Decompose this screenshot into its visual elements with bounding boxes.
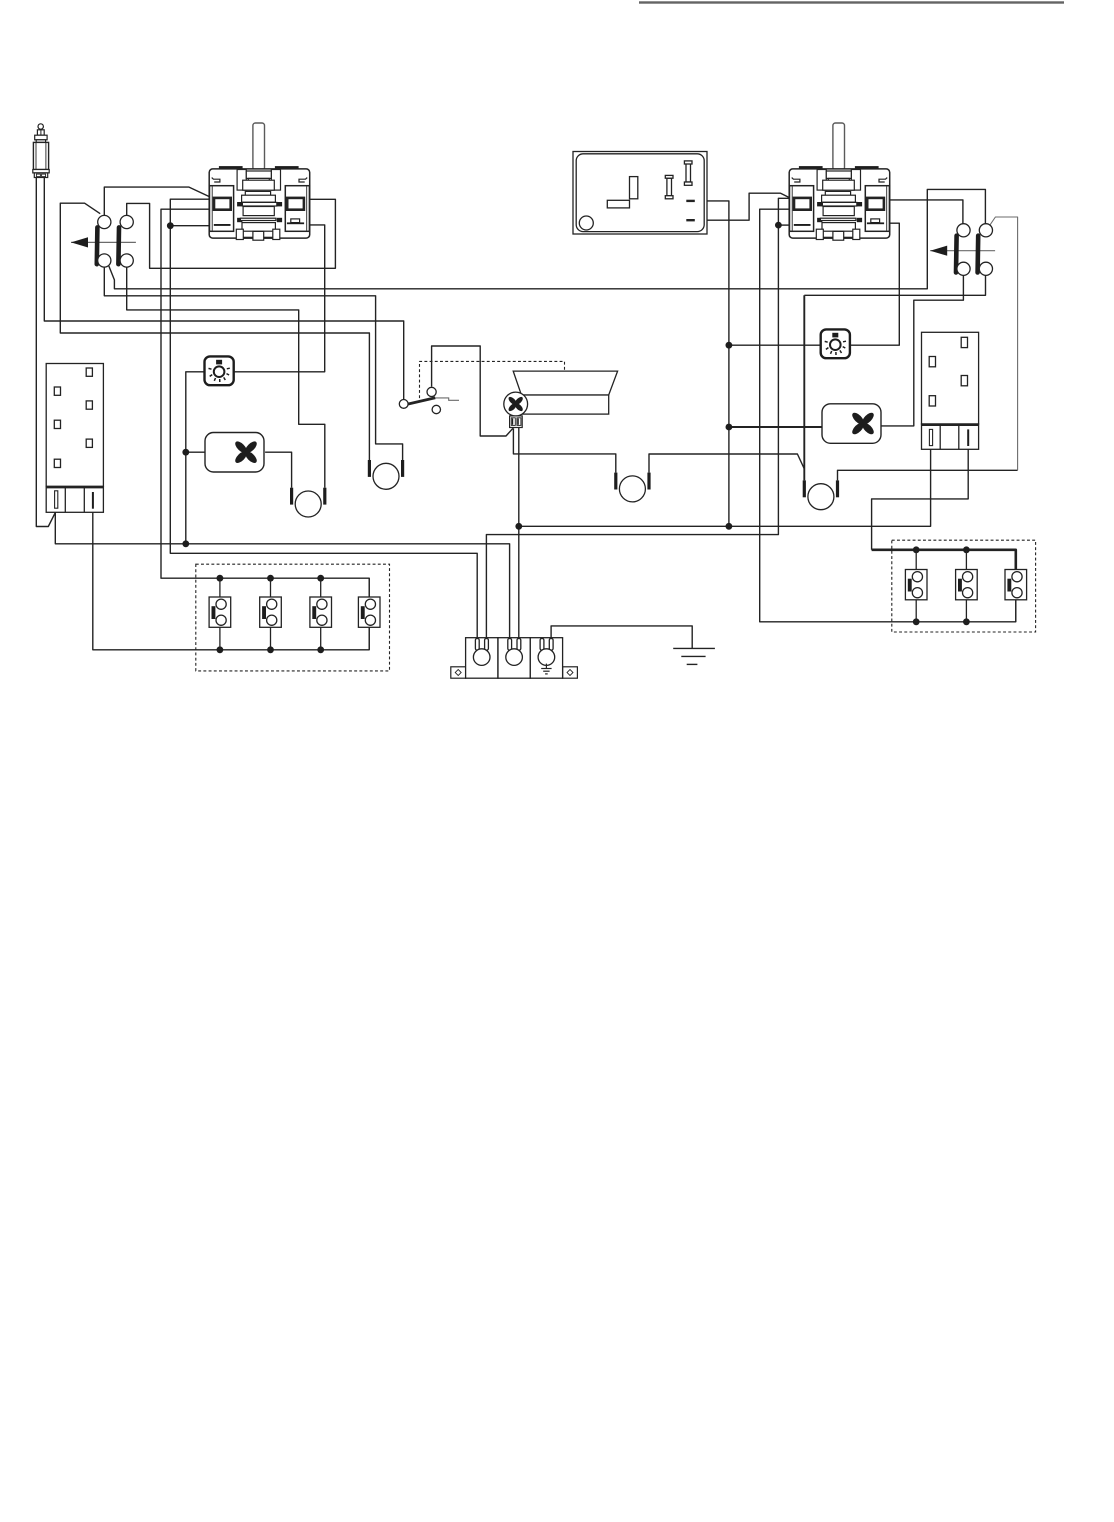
- wire S2 left wing mid pin to grill bank bottom bus: [760, 209, 1016, 622]
- hotplate switch bank enclosure (dashed): [196, 564, 390, 671]
- connector X1: [71, 215, 136, 267]
- node bank1 bottom bus a: [217, 646, 224, 653]
- wire S2 left wing corner rail to mains terminal 1 right: [486, 198, 790, 637]
- selector switch S1: [209, 123, 310, 240]
- connector X2: [930, 224, 995, 276]
- wire down to element E5 left holder: [803, 295, 805, 480]
- cooling fan M2: [822, 404, 881, 444]
- hotplate switch S12 lead: [270, 578, 272, 600]
- node bank2 bottom bus a: [913, 618, 920, 625]
- wire connector X1 bottom-left to element E3 right holder: [104, 267, 402, 460]
- grill switch S22 lead: [965, 550, 967, 573]
- wire node to oven lamp element E2 left holder: [60, 203, 369, 460]
- wire programmer A1 cell1 down to node: [55, 508, 186, 543]
- wire node to fan icon M2: [729, 426, 822, 428]
- wire connector X1 top-right loop to S1 right wing: [127, 199, 336, 268]
- cooling fan M1: [205, 433, 264, 473]
- wire relay K1 pin2 to switch S2 left wing: [695, 193, 791, 220]
- node S1 wing bar junction: [167, 222, 174, 229]
- wire earth link from mains terminal 3: [551, 626, 692, 648]
- oven lamp L1: [205, 356, 234, 385]
- wire probe left lead to programmer A1 terminal 1: [36, 178, 55, 527]
- node bank1 top bus b: [267, 575, 274, 582]
- element E2: [368, 460, 404, 489]
- wire programmer A2 cell1 to node rail: [519, 449, 931, 526]
- wire connector X1 bottom-left long run to connector X2 top-right: [109, 189, 986, 288]
- node fan M3 / cook rail junction: [515, 523, 522, 530]
- grill switch S23 lead: [1015, 550, 1017, 573]
- grill switch bank enclosure (dashed): [892, 540, 1036, 632]
- wire S2 left wing bar pin branch: [778, 224, 790, 226]
- programmer A1: [46, 364, 103, 513]
- wire relay K1 pin1 down rail: [695, 201, 729, 526]
- wire node to fan icon M1: [186, 451, 205, 453]
- hotplate switch S11: [209, 597, 231, 627]
- wire S1 right wing bar pin to lamp L1: [234, 225, 325, 372]
- wire dashed link door switch to cavity: [420, 361, 565, 398]
- wire connector X1 top-left to switch S1 left wing: [104, 187, 209, 215]
- node bank2 top bus b: [963, 546, 970, 553]
- wire S1 left wing bar pin branch: [170, 225, 209, 227]
- hotplate switch S14: [358, 597, 380, 627]
- node fan M2 rail junction: [726, 424, 733, 431]
- node bank2 bottom bus b: [963, 618, 970, 625]
- oven lamp L2: [821, 329, 850, 358]
- wire S2 right wing top pin to connector X2 top-left: [889, 200, 963, 224]
- wire connector X2 bottom-right to element E5 left holder: [804, 275, 985, 295]
- door switch S3: [399, 387, 459, 413]
- node cook rail junction right: [726, 523, 733, 530]
- wire S1 left wing mid pin to grill switch bank bus: [161, 209, 369, 599]
- element E1: [290, 488, 326, 517]
- grill switch S21: [905, 570, 927, 600]
- wire probe right lead to door switch common: [44, 178, 403, 400]
- wire element E4 right holder to element E5 left holder line: [649, 454, 804, 473]
- mains terminal N: [498, 638, 530, 679]
- node bank1 top bus a: [217, 575, 224, 582]
- hotplate switch S14 lead: [368, 578, 370, 600]
- wire connector X1 bottom-right to element E1 right holder: [127, 267, 325, 488]
- hotplate switch S13 lead: [320, 578, 322, 600]
- wire door switch NC to oven fan motor M3 left pin: [432, 346, 513, 436]
- thermostat probe B1: [33, 124, 49, 178]
- node lamp L1 / fan M1 junction: [182, 449, 189, 456]
- node bank1 top bus c: [317, 575, 324, 582]
- terminal PE earth mark: [541, 664, 551, 674]
- mains terminal L: [466, 638, 498, 679]
- oven fan motor M3: [504, 392, 528, 427]
- grill switch S23: [1005, 570, 1027, 600]
- wire lamp L1 to node and mains terminal 2 left: [186, 372, 510, 638]
- node bank2 top bus a: [913, 546, 920, 553]
- ground: [673, 648, 715, 664]
- grill switch S21 lead: [915, 550, 917, 573]
- grill switch S22: [956, 570, 978, 600]
- wire gray link up to connector X2 top-right: [990, 217, 1018, 470]
- wire grill bank top bus: [872, 550, 1016, 572]
- relay module K1: [573, 152, 707, 235]
- wire programmer A1 cell3 to switch bank bottom bus: [93, 509, 369, 650]
- node bank1 bottom bus c: [317, 646, 324, 653]
- oven cavity: [513, 371, 617, 414]
- node S2 wing bar junction: [775, 222, 782, 229]
- selector switch S2: [789, 123, 890, 240]
- hotplate switch S11 lead: [219, 578, 221, 600]
- wire node to lamp L2: [729, 344, 821, 346]
- hotplate switch S13: [310, 597, 332, 627]
- node lamp L2 rail junction: [726, 342, 733, 349]
- programmer A2: [922, 332, 979, 449]
- mains terminal block X3: [451, 667, 578, 678]
- header rule: [639, 1, 1064, 3]
- wire programmer A2 cell3 to grill bank top bus: [872, 446, 969, 550]
- element E5: [803, 480, 839, 509]
- element E4: [614, 473, 650, 502]
- wire S2 right wing bar pin to lamp L2: [850, 223, 899, 345]
- wire fan M3 right pin to mains terminal 2 right: [518, 427, 520, 637]
- hotplate switch S12: [260, 597, 282, 627]
- mains terminal PE: [530, 638, 562, 679]
- node programmer A1 junction: [182, 540, 189, 547]
- node bank1 bottom bus b: [267, 646, 274, 653]
- wire connector X2 bottom-left to fan icon M2 right side: [881, 275, 964, 426]
- wire fan M3 left pin to element E4 left holder: [513, 428, 615, 472]
- wire S1 left wing top pin to mains terminal 1 left: [170, 199, 477, 637]
- wire fan icon M1 to element E1 left holder: [265, 452, 292, 488]
- wire element E5 right holder to connector X2 gray link: [838, 470, 1018, 480]
